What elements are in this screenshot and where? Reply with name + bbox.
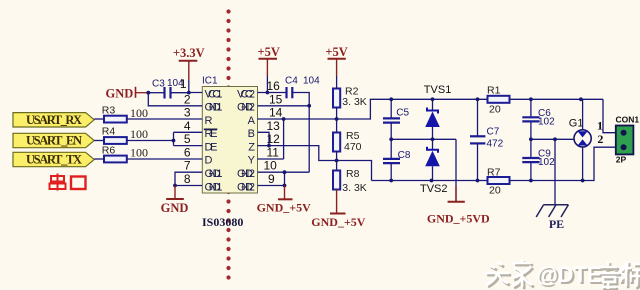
junction C5 top: [389, 97, 393, 101]
capacitor C7: [470, 99, 504, 180]
svg-text:+5V: +5V: [257, 45, 279, 59]
wire pin10: [258, 171, 310, 173]
wire vertical tying pin4 RE and pin5 DE: [173, 132, 175, 145]
junction C7 top: [476, 97, 480, 101]
bottom bus wire right of R7: [510, 147, 618, 180]
svg-text:8: 8: [184, 172, 191, 186]
wire BZ to R8: [336, 161, 338, 171]
svg-text:IC1: IC1: [202, 76, 218, 87]
junction A/Y: [282, 117, 286, 121]
IC1 pin numbers left: [180, 77, 191, 186]
resistor R5: [333, 130, 362, 153]
op IC1 chip body: [202, 76, 258, 194]
svg-text:R6: R6: [102, 145, 116, 157]
svg-text:100: 100: [130, 146, 148, 160]
resistor R7: [487, 167, 510, 197]
resistor R6: [102, 145, 148, 163]
svg-text:6: 6: [184, 145, 191, 159]
junction G1 bottom: [581, 179, 585, 183]
capacitor C5: [383, 99, 410, 139]
svg-text:TVS1: TVS1: [424, 84, 452, 96]
wire R5 to B/Z row: [336, 152, 338, 161]
svg-text:470: 470: [344, 141, 362, 153]
svg-text:R1: R1: [487, 85, 501, 97]
svg-text:R3: R3: [102, 105, 116, 117]
junction RE/DE: [172, 139, 176, 143]
wire pin12 Z row: [258, 146, 372, 181]
wire pin15: [258, 105, 310, 107]
bottom bus wire: [372, 180, 488, 182]
resistor R8: [333, 168, 367, 194]
wire pin14 A row: [258, 118, 338, 120]
svg-text:GND: GND: [161, 201, 189, 215]
wire C6/C9 mid to G1: [531, 138, 574, 140]
resistor R3: [102, 105, 148, 123]
svg-text:7: 7: [184, 159, 191, 173]
svg-text:2: 2: [597, 132, 603, 146]
svg-text:USART_TX: USART_TX: [26, 153, 82, 167]
svg-text:1: 1: [597, 119, 603, 133]
junction C6/C9 midpoint: [529, 137, 533, 141]
junction C5/C8 midpoint: [389, 137, 393, 141]
wire midpoint bus to GND_+5VD: [391, 138, 456, 140]
wire flag RX to R3: [94, 118, 104, 120]
svg-text:GND_+5VD: GND_+5VD: [427, 212, 490, 226]
RE overline: [204, 128, 218, 130]
junction C8 bottom: [389, 179, 393, 183]
svg-text:C4: C4: [285, 76, 298, 87]
svg-text:100: 100: [130, 106, 148, 120]
IC1 pin names left column: [205, 88, 223, 193]
wire top bus corner to CON1 pin1: [603, 99, 617, 132]
power port +5V (at IC): [257, 45, 279, 76]
wire +5V drop to pin16: [266, 76, 268, 93]
label 串口 (serial port) drawn glyphs: [50, 174, 86, 191]
earth symbol PE: [536, 205, 568, 217]
svg-text:GND1: GND1: [205, 181, 223, 193]
svg-text:+3.3V: +3.3V: [173, 46, 205, 60]
junction TVS2 bottom: [430, 179, 434, 183]
port flag USART_TX: [13, 152, 94, 166]
wire pin9: [258, 185, 285, 187]
power port +3.3V: [173, 46, 205, 80]
svg-text:R7: R7: [487, 167, 501, 179]
capacitor C9: [522, 139, 555, 180]
TVS2 diode: [420, 139, 448, 195]
power port GND_+5V (below pin9): [257, 186, 312, 215]
junction pin8/gnd: [173, 184, 177, 188]
svg-text:20: 20: [489, 185, 501, 197]
svg-text:5: 5: [184, 132, 191, 146]
svg-text:100: 100: [130, 127, 148, 141]
junction R5/BZ: [335, 159, 339, 163]
junction pin9: [283, 184, 287, 188]
wire pin8: [175, 185, 202, 187]
svg-text:102: 102: [538, 157, 555, 168]
wire R1 to right: [510, 98, 604, 100]
gas discharge tube G1: [569, 99, 591, 180]
IC1 pin names right column: [237, 88, 256, 193]
junction C6 top: [529, 97, 533, 101]
svg-text:9: 9: [268, 172, 275, 186]
junction +5V/pin16: [266, 91, 270, 95]
svg-text:104: 104: [167, 78, 184, 89]
svg-text:R4: R4: [102, 126, 116, 138]
svg-text:3. 3K: 3. 3K: [342, 182, 367, 194]
svg-text:R8: R8: [346, 168, 360, 180]
svg-text:GND_+5V: GND_+5V: [257, 200, 312, 214]
svg-text:GND: GND: [106, 86, 134, 100]
capacitor C4: [285, 76, 320, 99]
power port GND_+5VD: [427, 139, 490, 225]
svg-text:DE: DE: [205, 141, 218, 153]
svg-text:15: 15: [269, 92, 283, 106]
junction PE tap: [553, 137, 557, 141]
junction GND/C3/pin2: [146, 91, 150, 95]
power port GND_+5V (below R8): [311, 190, 366, 229]
capacitor C3: [148, 78, 189, 99]
svg-text:102: 102: [538, 116, 555, 127]
svg-text:GND2: GND2: [237, 168, 255, 180]
svg-text:G1: G1: [569, 117, 584, 129]
svg-text:CON1: CON1: [616, 114, 640, 124]
svg-text:10: 10: [264, 159, 278, 173]
resistor R4: [102, 126, 148, 144]
wire R2 to A row: [336, 108, 338, 120]
svg-text:GND_+5V: GND_+5V: [311, 215, 366, 229]
port flag USART_RX: [13, 113, 94, 127]
power port GND below chip: [161, 186, 189, 216]
wire flag TX to R6: [94, 158, 104, 160]
wire pin16 to C4: [258, 92, 287, 94]
svg-text:472: 472: [487, 139, 504, 150]
svg-text:VCC2: VCC2: [237, 88, 255, 100]
power port +5V (at R2): [325, 45, 347, 76]
svg-text:A: A: [248, 115, 256, 127]
svg-text:16: 16: [267, 79, 281, 93]
junction TVS1 top: [431, 97, 435, 101]
wire pin10 to pin9 vertical: [284, 172, 286, 185]
power port GND left: [106, 86, 149, 100]
svg-text:11: 11: [267, 145, 280, 159]
svg-text:13: 13: [267, 119, 281, 133]
junction B/Z: [267, 144, 271, 148]
svg-text:20: 20: [489, 103, 501, 115]
svg-text:C7: C7: [487, 127, 500, 138]
svg-text:2: 2: [184, 92, 191, 106]
junction pin15/vertical: [307, 104, 311, 108]
wire pin7 to ground drop: [175, 172, 202, 185]
wire A jog up to top bus: [337, 99, 488, 119]
svg-text:14: 14: [269, 106, 283, 120]
wire R3 to pin 3: [127, 118, 203, 120]
wire +5V to R2: [336, 76, 338, 89]
wire +3.3V to pin 1: [189, 80, 203, 93]
svg-text:C5: C5: [396, 108, 409, 119]
svg-text:GND2: GND2: [237, 181, 255, 193]
IC1 pin numbers right: [264, 79, 283, 186]
capacitor C8: [383, 139, 411, 180]
svg-text:+5V: +5V: [325, 45, 347, 59]
wire pin13 B stub: [258, 132, 270, 145]
resistor R1: [487, 85, 510, 116]
isolation barrier dotted line: [226, 9, 230, 279]
svg-text:PE: PE: [549, 217, 564, 231]
svg-text:3: 3: [184, 106, 191, 120]
wire R6 to pin 6: [127, 158, 203, 160]
junction G1 top: [579, 97, 583, 101]
svg-text:104: 104: [303, 76, 320, 87]
wire flag EN to R4: [94, 140, 104, 142]
svg-text:Y: Y: [248, 155, 256, 167]
wire pin11 Y: [258, 158, 284, 160]
svg-text:GND1: GND1: [205, 102, 223, 114]
svg-text:Z: Z: [248, 141, 255, 153]
wire pin2 drop: [148, 93, 202, 106]
svg-text:C8: C8: [398, 150, 411, 161]
svg-text:3. 3K: 3. 3K: [342, 96, 367, 108]
resistor R2: [333, 85, 367, 108]
svg-text:4: 4: [184, 119, 191, 133]
wire R4 to RE/DE junction: [127, 140, 174, 142]
svg-text:USART_RX: USART_RX: [26, 113, 82, 127]
junction TVS1/TVS2 midpoint: [431, 137, 435, 141]
svg-text:D: D: [205, 155, 213, 167]
wire to pin 5: [174, 145, 203, 147]
svg-text:GND1: GND1: [205, 168, 223, 180]
capacitor C6: [522, 99, 555, 139]
junction R2/A: [335, 117, 339, 121]
svg-text:USART_EN: USART_EN: [26, 134, 82, 148]
junction pin10: [283, 170, 287, 174]
wire C4 to GND2 vertical: [292, 93, 309, 173]
junction C9 bottom: [529, 179, 533, 183]
connector CON1 body: [616, 126, 634, 155]
svg-text:GND2: GND2: [237, 102, 255, 114]
wire PE drop: [554, 139, 556, 204]
svg-text:TVS2: TVS2: [420, 183, 448, 195]
svg-text:R: R: [205, 115, 213, 127]
svg-text:VCC1: VCC1: [205, 88, 223, 100]
junction +3.3V/C3/pin1: [187, 91, 191, 95]
svg-text:IS03080: IS03080: [202, 215, 243, 229]
wire to pin 4: [174, 131, 203, 133]
TVS1 diode: [424, 84, 452, 139]
junction C7 bottom: [476, 179, 480, 183]
port flag USART_EN: [13, 133, 94, 147]
svg-text:2P: 2P: [616, 155, 627, 165]
svg-text:C3: C3: [152, 79, 165, 90]
wire A to R5: [336, 119, 338, 133]
svg-text:B: B: [248, 128, 255, 140]
wire A to Y vertical: [283, 119, 285, 159]
